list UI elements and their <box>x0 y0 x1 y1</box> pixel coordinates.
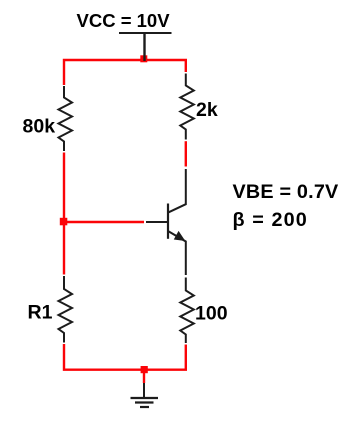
svg-text:VCC = 10V: VCC = 10V <box>77 10 171 31</box>
svg-text:β = 200: β = 200 <box>233 209 308 231</box>
svg-text:100: 100 <box>195 303 228 325</box>
svg-text:R1: R1 <box>28 302 53 324</box>
svg-text:VBE = 0.7V: VBE = 0.7V <box>233 181 340 203</box>
svg-text:80k: 80k <box>23 116 56 138</box>
svg-text:2k: 2k <box>196 99 218 121</box>
